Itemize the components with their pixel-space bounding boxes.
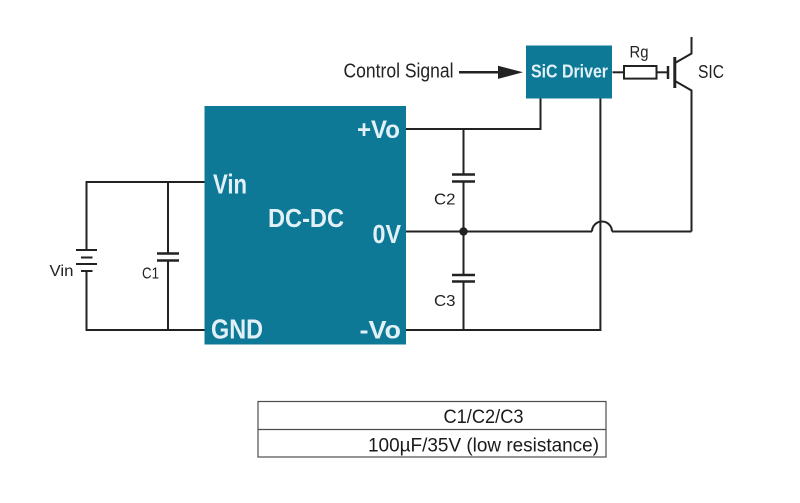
svg-text:0V: 0V — [373, 219, 402, 249]
svg-text:SIC: SIC — [698, 62, 724, 82]
svg-text:C2: C2 — [434, 192, 456, 209]
svg-text:+Vo: +Vo — [357, 116, 400, 144]
svg-text:100µF/35V (low resistance): 100µF/35V (low resistance) — [368, 436, 599, 457]
svg-text:C3: C3 — [434, 293, 456, 310]
svg-text:Control Signal: Control Signal — [344, 61, 454, 83]
svg-text:C1/C2/C3: C1/C2/C3 — [444, 407, 524, 428]
svg-text:C1: C1 — [142, 266, 159, 283]
svg-text:Vin: Vin — [213, 169, 247, 200]
svg-text:SiC Driver: SiC Driver — [531, 62, 608, 82]
svg-text:Vin: Vin — [50, 263, 74, 280]
svg-text:DC-DC: DC-DC — [268, 203, 344, 233]
svg-text:GND: GND — [211, 314, 263, 345]
svg-text:-Vo: -Vo — [360, 317, 402, 345]
svg-text:Rg: Rg — [630, 43, 649, 62]
